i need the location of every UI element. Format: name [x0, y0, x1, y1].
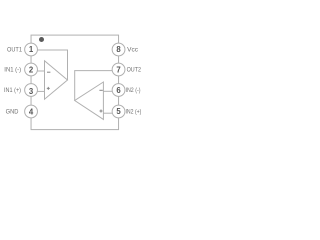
- wire pin1 to op-amp U1A output: [37, 50, 67, 80]
- U1B minus sign: [99, 89, 102, 91]
- U1B plus sign: [100, 110, 103, 113]
- svg-text:1: 1: [29, 45, 34, 54]
- wire pin3 to U1A non-inverting input: [37, 90, 44, 92]
- svg-text:6: 6: [116, 86, 121, 95]
- svg-text:2: 2: [29, 66, 34, 75]
- svg-text:IN1 (-): IN1 (-): [4, 67, 21, 74]
- pin 4 circle: [25, 105, 38, 118]
- svg-text:GND: GND: [6, 109, 19, 116]
- svg-text:4: 4: [29, 108, 34, 117]
- IC body U1 (DIP-8 outline): [31, 35, 119, 130]
- svg-text:Vcc: Vcc: [127, 47, 138, 54]
- svg-text:5: 5: [116, 107, 121, 116]
- pin 2 circle: [25, 63, 38, 76]
- pin 5 circle: [112, 105, 125, 118]
- wire pin6 to U1B inverting input: [103, 90, 112, 92]
- op-amp U1A: [45, 61, 68, 99]
- svg-text:OUT1: OUT1: [7, 47, 22, 54]
- wire pin5 to U1B non-inverting input: [103, 112, 112, 114]
- pin 7 circle: [112, 63, 125, 76]
- pin 1 circle: [25, 43, 38, 56]
- svg-text:IN1 (+): IN1 (+): [4, 87, 21, 94]
- pin 3 circle: [25, 84, 38, 97]
- wire pin2 to U1A inverting input: [37, 70, 44, 72]
- svg-text:IN2 (+): IN2 (+): [126, 109, 142, 116]
- svg-text:7: 7: [116, 66, 120, 75]
- svg-text:3: 3: [29, 87, 34, 96]
- svg-text:8: 8: [116, 45, 121, 54]
- pin-1 indicator dot: [39, 37, 44, 42]
- U1A minus sign: [47, 71, 50, 73]
- U1A plus sign: [47, 87, 50, 90]
- pin 8 circle: [112, 43, 125, 56]
- pin 6 circle: [112, 84, 125, 97]
- svg-text:IN2 (-): IN2 (-): [126, 87, 141, 94]
- wire pin7 to op-amp U1B output: [75, 71, 112, 101]
- svg-text:OUT2: OUT2: [127, 67, 142, 74]
- op-amp U1B: [75, 82, 104, 119]
